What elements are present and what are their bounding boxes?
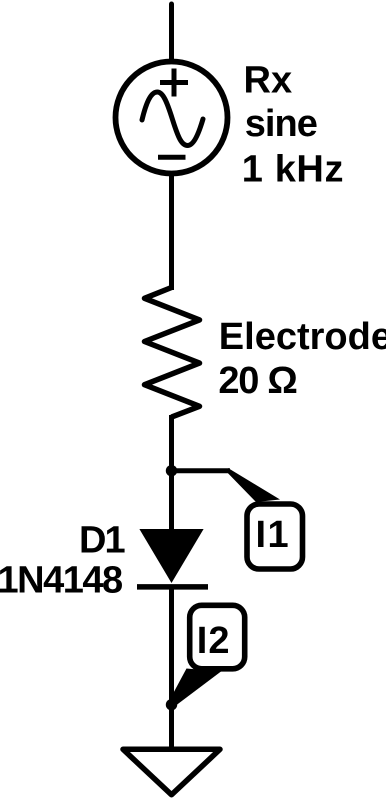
svg-text:Rx: Rx bbox=[244, 59, 293, 101]
svg-text:D1: D1 bbox=[79, 519, 125, 561]
leader wedge to I2 bbox=[169, 669, 222, 707]
source V1 circle bbox=[116, 62, 228, 174]
diode D1 triangle bbox=[139, 529, 203, 583]
wire diode to node B bbox=[169, 586, 174, 706]
svg-text:20 Ω: 20 Ω bbox=[218, 360, 296, 402]
probe label I2 box bbox=[190, 605, 245, 669]
wire node A to I1 leader bbox=[172, 468, 231, 473]
minus sign bbox=[158, 155, 186, 160]
sine wave bbox=[142, 92, 203, 146]
svg-text:I1: I1 bbox=[256, 514, 291, 556]
probe label I1 box bbox=[247, 504, 303, 569]
node B junction dot bbox=[166, 699, 177, 710]
ground symbol bbox=[123, 749, 220, 795]
resistor R1 zigzag bbox=[145, 288, 200, 418]
wire from top to source bbox=[169, 4, 174, 62]
wire node B to ground bbox=[169, 704, 174, 751]
wire resistor to diode bbox=[169, 415, 174, 532]
wire source to resistor bbox=[169, 173, 174, 290]
svg-text:1 kHz: 1 kHz bbox=[242, 148, 344, 190]
svg-text:I2: I2 bbox=[197, 620, 231, 662]
svg-text:1N4148: 1N4148 bbox=[0, 560, 122, 602]
diode cathode bar bbox=[137, 584, 208, 590]
node A junction dot bbox=[166, 465, 177, 476]
leader wedge to I1 bbox=[228, 468, 280, 502]
svg-text:sine: sine bbox=[245, 103, 317, 145]
svg-text:Electrode: Electrode bbox=[219, 316, 386, 358]
plus sign bbox=[160, 69, 188, 97]
